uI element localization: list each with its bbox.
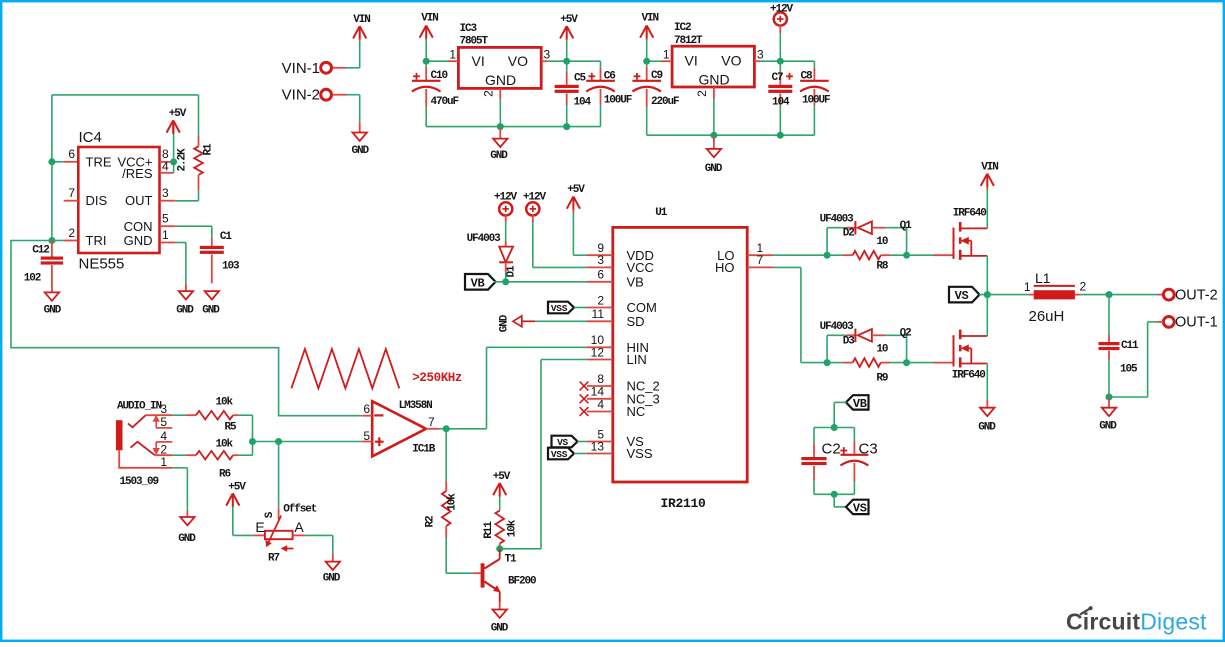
svg-text:100UF: 100UF	[802, 95, 830, 107]
transistor T1 BF200	[481, 563, 485, 587]
diode D2 UF4003	[827, 227, 846, 229]
svg-text:VI: VI	[685, 53, 698, 69]
flag VB at C2	[846, 395, 869, 409]
wire R2 to T1 base	[445, 538, 447, 573]
svg-text:R7: R7	[268, 553, 280, 565]
svg-text:CircuitDigest: CircuitDigest	[1066, 609, 1207, 635]
wire junction to TRI	[51, 162, 53, 241]
op-amp minus marker	[374, 414, 383, 416]
capacitor C9 220uF	[646, 61, 648, 67]
power +12V circle B	[526, 202, 539, 215]
svg-text:R5: R5	[225, 422, 238, 434]
wire pin1 to ground	[172, 467, 187, 469]
wire Q1 source to VS	[986, 256, 988, 295]
pin 5 CON	[160, 225, 176, 227]
ground C12	[45, 292, 59, 300]
node R5/R6 junction	[249, 438, 256, 445]
pin 3 OUT	[160, 200, 176, 202]
power +5V at NE555	[173, 133, 175, 162]
pin 1 GND	[160, 242, 176, 244]
svg-text:GND: GND	[178, 533, 196, 545]
svg-text:+5V: +5V	[567, 184, 585, 196]
svg-text:10: 10	[876, 344, 888, 356]
svg-text:OUT: OUT	[125, 193, 153, 208]
pin 7 DIS	[64, 200, 79, 202]
svg-text:1503_09: 1503_09	[120, 476, 159, 488]
svg-text:IR2110: IR2110	[661, 496, 707, 511]
svg-text:BF200: BF200	[508, 576, 536, 588]
ground 7812	[713, 135, 715, 149]
svg-text:5: 5	[162, 212, 169, 226]
svg-text:C1: C1	[220, 231, 233, 243]
wire to Q1 gate	[907, 254, 933, 256]
svg-text:CON: CON	[124, 219, 153, 234]
wire NE555 pin6 net	[52, 161, 64, 163]
pin 7 HO U1	[747, 266, 773, 268]
svg-text:6: 6	[363, 402, 370, 416]
wire +12V B to pin3 VCC	[532, 215, 534, 222]
svg-text:1: 1	[162, 228, 169, 242]
regulator IC2 7812T box	[672, 46, 754, 87]
connector VIN-2	[321, 89, 332, 100]
svg-text:+5V: +5V	[560, 14, 578, 26]
wire OUT to R1	[175, 200, 198, 202]
node R9 left junction	[824, 359, 831, 366]
ground C11	[1108, 397, 1110, 408]
wire D2 right leg	[906, 228, 908, 256]
svg-text:Q1: Q1	[900, 220, 913, 232]
svg-text:D1: D1	[506, 265, 518, 278]
pin 5 op-amp	[362, 441, 372, 443]
wire pin3 to R5	[172, 414, 186, 416]
svg-text:GND: GND	[176, 305, 194, 317]
svg-text:GND: GND	[978, 422, 996, 434]
resistor R9 10	[827, 362, 843, 364]
pot wiper	[278, 442, 280, 509]
svg-text:IRF640: IRF640	[953, 208, 987, 220]
flag VSS at pin13	[548, 448, 574, 460]
wire IC2 VO rail	[760, 60, 814, 62]
svg-text:+12V: +12V	[494, 192, 518, 204]
node 7812 rail gnd junction	[710, 132, 717, 139]
node VS junction	[984, 291, 991, 298]
pin 8 NC_2 U1	[587, 385, 613, 387]
svg-text:U1: U1	[655, 207, 668, 219]
no-connect X pin 4	[580, 407, 589, 416]
pin 4 jack	[156, 441, 172, 443]
svg-text:VIN-2: VIN-2	[282, 87, 320, 104]
wire 7812 bottom rail	[647, 134, 815, 136]
pin 13 VSS U1	[587, 453, 613, 455]
wire VB flag to C2	[834, 401, 846, 403]
wire to op-amp plus	[279, 441, 363, 443]
wire D3 left leg	[826, 335, 828, 362]
svg-text:3: 3	[597, 253, 604, 267]
svg-text:2: 2	[597, 293, 604, 307]
svg-text:1: 1	[160, 455, 167, 469]
svg-text:2: 2	[68, 226, 75, 240]
wire HO to R9	[773, 266, 801, 268]
transistor Q2 IRF640	[953, 335, 955, 366]
diode D1 UF4003	[499, 247, 513, 263]
wire VIN to VIN-1	[359, 41, 361, 68]
svg-text:UF4003: UF4003	[820, 213, 855, 225]
wire OUT-1 net	[1157, 321, 1163, 323]
node NE555 pin6 junction	[48, 158, 55, 165]
transistor Q1 IRF640	[953, 228, 955, 259]
resistor R5 10k	[186, 414, 196, 416]
svg-text:VB: VB	[853, 397, 867, 411]
capacitor C3	[853, 428, 855, 442]
svg-text:NE555: NE555	[79, 256, 125, 273]
pin 4 /RES	[160, 172, 174, 174]
node rail gnd junction	[497, 123, 504, 130]
svg-text:L1: L1	[1035, 270, 1051, 286]
svg-text:7: 7	[757, 253, 764, 267]
svg-text:S: S	[264, 511, 276, 518]
pin 4 NC U1	[587, 411, 613, 413]
svg-text:10k: 10k	[507, 519, 519, 537]
wire VS flag	[979, 294, 987, 296]
svg-text:VS: VS	[557, 437, 568, 448]
wire Q2 source to ground	[986, 364, 988, 401]
pin 6 VB U1	[587, 281, 613, 283]
flag VS at mosfets	[949, 287, 980, 303]
svg-text:GND: GND	[490, 150, 508, 162]
ground C1	[205, 291, 219, 299]
flag VB	[465, 274, 496, 290]
svg-text:DIS: DIS	[86, 193, 108, 208]
svg-text:+12V: +12V	[770, 4, 794, 16]
svg-text:2: 2	[1080, 280, 1087, 294]
svg-text:+5V: +5V	[228, 481, 246, 493]
svg-text:UF4003: UF4003	[820, 321, 855, 333]
svg-text:R2: R2	[425, 516, 437, 528]
svg-text:COM: COM	[627, 300, 657, 315]
svg-text:GND: GND	[1099, 421, 1117, 433]
capacitor C12 102	[51, 241, 53, 257]
wire R6 bend	[239, 454, 253, 456]
connector switch hook lower	[131, 442, 155, 455]
connector OUT-1	[1163, 317, 1174, 328]
node VB junction	[502, 278, 509, 285]
svg-text:IC2: IC2	[674, 22, 691, 34]
op-amp U1B IC4 box	[78, 147, 159, 253]
svg-text:6: 6	[597, 268, 604, 282]
wire pin2 to R6	[172, 454, 186, 456]
svg-text:VIN: VIN	[642, 13, 659, 25]
svg-text:3: 3	[757, 48, 764, 62]
pin 5 jack	[156, 427, 172, 429]
svg-text:D3: D3	[843, 335, 856, 347]
node C2 bottom junction	[831, 491, 838, 498]
svg-text:VS: VS	[955, 289, 969, 303]
pin 6 op-amp	[362, 415, 372, 417]
wire VS flag to pin5	[578, 441, 588, 443]
pin 2 COM U1	[587, 307, 613, 309]
svg-text:100UF: 100UF	[604, 95, 632, 107]
svg-text:IC4: IC4	[79, 129, 102, 146]
no-connect X pin 8	[580, 382, 589, 391]
resistor R11 10k	[499, 497, 501, 511]
node op-amp out junction	[443, 425, 450, 432]
pin 10 HIN U1	[587, 346, 613, 348]
wire C2C3 bottom rail	[814, 493, 854, 495]
power +5V at C5	[560, 26, 567, 38]
svg-text:NC: NC	[627, 404, 646, 419]
svg-text:3: 3	[162, 186, 169, 200]
resistor R1 2.2K	[198, 135, 200, 146]
ground NE555 pin1	[185, 283, 187, 291]
pot adjust arrow	[285, 548, 294, 550]
svg-text:C8: C8	[801, 71, 814, 83]
svg-text:VI: VI	[472, 53, 485, 69]
wire D3 right leg	[906, 335, 908, 362]
pin 1 jack	[119, 450, 172, 468]
svg-text:Offset: Offset	[283, 504, 317, 516]
svg-text:10: 10	[876, 236, 888, 248]
svg-text:10k: 10k	[447, 493, 459, 511]
svg-text:R9: R9	[876, 373, 888, 385]
wire C2C3 top rail	[814, 427, 854, 429]
svg-text:R6: R6	[219, 469, 231, 481]
svg-text:10k: 10k	[216, 439, 234, 451]
svg-text:IC3: IC3	[460, 23, 478, 35]
pin 7 op-amp out	[426, 428, 439, 430]
wire to Q2 gate	[907, 362, 933, 364]
pin 14 NC_3 U1	[587, 398, 613, 400]
node C9 junction	[643, 58, 650, 65]
svg-text:LIN: LIN	[627, 352, 647, 367]
svg-text:GND: GND	[705, 163, 723, 175]
svg-text:GND: GND	[485, 72, 516, 88]
flag VS at pin5	[552, 436, 578, 448]
svg-text:5: 5	[160, 415, 167, 429]
svg-text:OUT-2: OUT-2	[1175, 288, 1218, 304]
svg-text:C11: C11	[1121, 340, 1139, 352]
svg-text:4: 4	[162, 160, 169, 174]
connector switch hook upper	[128, 415, 146, 427]
wire VIN-2 to ground	[332, 94, 346, 96]
pin 8 VCC+	[160, 161, 174, 163]
node R8 right junction	[903, 252, 910, 259]
connector VIN-1	[321, 62, 332, 73]
svg-text:VS: VS	[853, 501, 867, 515]
op-amp plus marker	[375, 441, 384, 443]
capacitor C11 105	[1108, 295, 1110, 335]
svg-text:A: A	[294, 519, 304, 535]
svg-text:105: 105	[1120, 364, 1138, 376]
pin 1 LO U1	[747, 254, 773, 256]
node C5 bottom junction	[563, 123, 570, 130]
svg-text:VIN-1: VIN-1	[282, 60, 320, 77]
wire to VS flag bottom	[833, 494, 835, 507]
flag VS at C2	[846, 500, 869, 514]
connector OUT-2	[1163, 289, 1174, 300]
diode D3 UF4003	[827, 334, 846, 336]
svg-text:C9: C9	[651, 70, 663, 82]
power +12V circle	[774, 12, 787, 25]
pin 2 jack	[155, 454, 173, 456]
wire +12V A to D1	[505, 215, 507, 222]
svg-text:VCC: VCC	[627, 260, 654, 275]
svg-text:470uF: 470uF	[431, 96, 459, 108]
svg-text:C3: C3	[859, 441, 878, 458]
svg-text:103: 103	[222, 261, 240, 273]
svg-text:UF4003: UF4003	[467, 233, 502, 245]
wire op-amp out	[439, 428, 487, 430]
wire NE555 pin2 net	[52, 240, 64, 242]
svg-text:3: 3	[544, 48, 551, 62]
wire VB to pin6	[494, 281, 506, 283]
wire D1 to VB node	[505, 262, 507, 272]
svg-text:Q2: Q2	[900, 328, 912, 340]
svg-text:11: 11	[592, 307, 605, 321]
svg-text:GND: GND	[202, 305, 220, 317]
ground flag at SD	[513, 316, 522, 327]
svg-text:TRI: TRI	[86, 233, 107, 248]
wire VSS flag to pin13	[574, 453, 587, 455]
svg-text:VSS: VSS	[627, 446, 653, 461]
capacitor C1 103	[211, 238, 213, 246]
connector 1503_09 jack body	[116, 420, 123, 450]
capacitor C7 104	[779, 61, 781, 72]
wire +12V to rail	[779, 25, 781, 33]
svg-text:1: 1	[449, 48, 456, 62]
svg-text:2.2K: 2.2K	[177, 148, 189, 172]
svg-text:R11: R11	[483, 521, 495, 539]
ground VIN-2	[353, 133, 367, 141]
triangle-wave symbol	[291, 349, 399, 388]
wire Q2 drain to VS	[986, 295, 988, 336]
node T1 collector junction	[496, 545, 503, 552]
svg-text:220uF: 220uF	[651, 96, 679, 108]
pin 3 VCC U1	[587, 266, 613, 268]
svg-text:2: 2	[482, 90, 496, 97]
node C7 bottom junction	[777, 132, 784, 139]
wire NE555 feedback/top net	[51, 95, 53, 162]
svg-text:TRE: TRE	[86, 154, 112, 169]
svg-text:C5: C5	[574, 73, 587, 85]
svg-text:C2: C2	[822, 441, 841, 458]
node L1 out junction	[1106, 291, 1113, 298]
ground T1	[493, 610, 507, 618]
wire op-amp out down	[445, 429, 447, 482]
pin 9 VDD U1	[587, 254, 613, 256]
svg-text:OUT-1: OUT-1	[1175, 315, 1218, 331]
svg-text:T1: T1	[505, 554, 518, 566]
node C10 junction	[423, 58, 430, 65]
resistor R8 10	[827, 254, 843, 256]
svg-text:/RES: /RES	[122, 166, 153, 181]
wire VS to L1	[987, 294, 1028, 296]
pin 11 SD U1	[587, 320, 613, 322]
wire +5V to pot E	[232, 507, 234, 536]
power +12V circle A	[499, 202, 512, 215]
svg-text:13: 13	[591, 439, 605, 453]
svg-text:2: 2	[695, 90, 709, 97]
node op-amp plus junction	[275, 438, 282, 445]
jack arrow up	[155, 419, 157, 428]
wire 555 output to op-amp run	[11, 241, 362, 416]
flag VSS at COM	[548, 302, 574, 314]
svg-text:1: 1	[1024, 280, 1031, 294]
node C5 top junction	[563, 58, 570, 65]
svg-text:VSS: VSS	[551, 449, 568, 460]
wire D2 left leg	[826, 228, 828, 256]
svg-text:10k: 10k	[216, 397, 234, 409]
svg-text:AUDIO_IN: AUDIO_IN	[117, 401, 162, 413]
svg-text:VB: VB	[627, 274, 644, 289]
ground Q2	[980, 408, 994, 416]
svg-text:4: 4	[597, 397, 604, 411]
svg-text:6: 6	[68, 147, 75, 161]
svg-text:VIN: VIN	[421, 13, 438, 25]
capacitor C8 100UF	[813, 61, 815, 68]
svg-text:C6: C6	[604, 71, 616, 83]
pin 3 jack	[146, 414, 173, 416]
svg-text:12: 12	[591, 345, 605, 359]
ground R7	[326, 562, 340, 570]
pin 12 LIN U1	[587, 359, 613, 361]
svg-text:IC1B: IC1B	[412, 444, 436, 456]
svg-text:VIN: VIN	[981, 162, 998, 174]
wire gnd to SD	[535, 320, 587, 322]
wire VIN to IC3 pin1	[425, 40, 427, 61]
wire LO to R8	[773, 254, 827, 256]
svg-text:LM358N: LM358N	[399, 400, 433, 412]
wire R5 bend	[239, 414, 253, 416]
svg-text:+5V: +5V	[169, 108, 187, 120]
pin 5 VS U1	[587, 441, 613, 443]
svg-text:>250KHz: >250KHz	[412, 371, 462, 385]
svg-text:1: 1	[663, 48, 670, 62]
node R8 left junction	[824, 252, 831, 259]
svg-text:C7: C7	[772, 72, 784, 84]
node R9 right junction	[903, 359, 910, 366]
svg-text:26uH: 26uH	[1029, 308, 1065, 325]
node NE555 pin2 junction	[48, 237, 55, 244]
svg-text:HO: HO	[715, 260, 735, 275]
svg-text:E: E	[255, 519, 264, 535]
resistor R2 10k	[445, 482, 447, 492]
ground audio jack	[186, 511, 188, 517]
wire HIN net	[487, 346, 588, 348]
svg-text:+12V: +12V	[523, 192, 547, 204]
wire 7805 bottom rail	[426, 126, 600, 128]
svg-text:SD: SD	[627, 314, 645, 329]
svg-text:C12: C12	[32, 244, 49, 256]
svg-text:VO: VO	[721, 53, 741, 69]
svg-text:VO: VO	[508, 53, 528, 69]
svg-text:7812T: 7812T	[674, 35, 703, 47]
svg-text:104: 104	[574, 97, 592, 109]
svg-text:GND: GND	[491, 623, 509, 635]
capacitor C2	[813, 428, 815, 444]
svg-text:VSS: VSS	[551, 303, 568, 314]
svg-text:GND: GND	[698, 72, 729, 88]
capacitor C5 104	[566, 61, 568, 72]
op-amp IC1B triangle	[372, 401, 426, 456]
svg-text:VB: VB	[471, 276, 485, 290]
wire LIN net	[541, 359, 587, 361]
wire VSS flag to COM	[574, 307, 587, 309]
no-connect X pin 14	[580, 394, 589, 403]
svg-text:D2: D2	[843, 228, 855, 240]
resistor R6 10k	[186, 454, 196, 456]
svg-text:+5V: +5V	[493, 471, 511, 483]
svg-text:GND: GND	[351, 145, 369, 157]
